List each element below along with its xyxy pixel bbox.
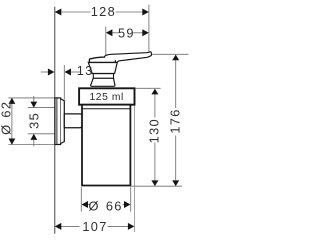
bottle body — [82, 105, 130, 186]
wire extension 107 right (long faint) — [134, 106, 136, 232]
dimension 107 — [60, 225, 128, 227]
pump waist — [93, 74, 113, 79]
pump cup — [88, 62, 117, 73]
dimension dia 66 — [88, 204, 90, 206]
wire baseline extension bottom right — [131, 185, 182, 187]
lever handle — [104, 52, 151, 63]
dimension 130 — [154, 89, 156, 186]
bottle collar ring — [79, 88, 134, 104]
svg-text:13: 13 — [77, 63, 94, 78]
dimension 13 — [41, 71, 48, 73]
wire extension line 176 top — [152, 53, 189, 55]
escutcheon plate slab — [55, 98, 64, 145]
wire extension line right of 128/59 — [148, 5, 150, 52]
wire extension dia66 left — [80, 187, 82, 211]
wire extension lines 35 — [28, 107, 55, 109]
svg-text:128: 128 — [91, 4, 116, 19]
svg-text:107: 107 — [82, 219, 107, 234]
pump flare — [91, 78, 115, 86]
bottle shoulder line — [83, 108, 130, 110]
svg-text:35: 35 — [27, 112, 42, 129]
holder arm — [64, 114, 82, 128]
wall — [54, 7, 56, 234]
dimension 176 — [175, 55, 177, 186]
pump cap dome — [89, 57, 115, 62]
wire extension lines dia62 — [8, 97, 56, 99]
dimension dia 62 — [11, 98, 13, 144]
wire extension line 130 top — [136, 87, 161, 89]
dimension 128 — [60, 11, 143, 13]
wire extension dia66 right — [130, 187, 132, 211]
svg-text:Ø 62: Ø 62 — [0, 101, 13, 135]
svg-text:Ø 66: Ø 66 — [89, 198, 123, 213]
svg-text:176: 176 — [167, 108, 182, 133]
wire extension line 59 left — [105, 27, 107, 57]
svg-text:130: 130 — [147, 118, 162, 143]
svg-text:125 ml: 125 ml — [89, 92, 124, 103]
svg-text:59: 59 — [118, 25, 135, 40]
dimension 59 — [112, 32, 144, 34]
dimension 35 — [33, 96, 35, 102]
wire extension line 13 right — [63, 65, 65, 100]
